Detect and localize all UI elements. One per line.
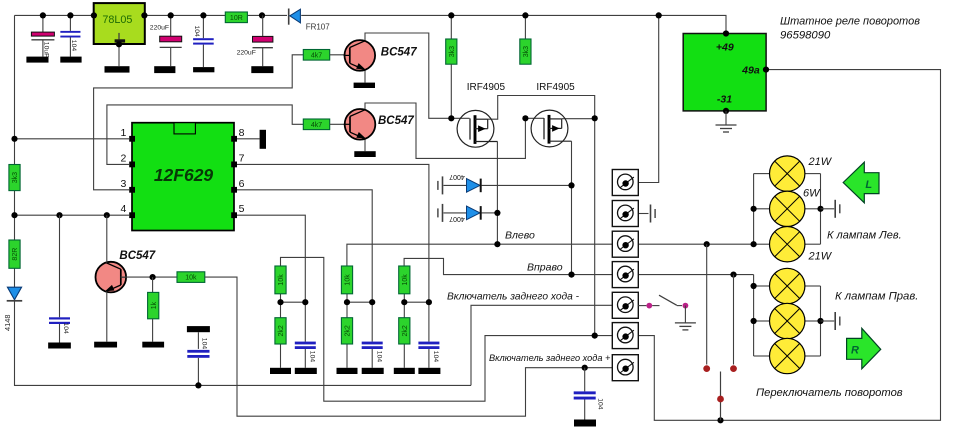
capacitor C6 104 (pin-4 row filter) [59, 215, 61, 317]
resistor R7 3k3 (gate pull-up of T2) [524, 15, 526, 39]
svg-text:Переключатель поворотов: Переключатель поворотов [756, 387, 903, 399]
wire: right switch contact drop [733, 275, 735, 365]
svg-text:К лампам Прав.: К лампам Прав. [835, 291, 918, 303]
wire: pin 6 to RC network 2 mid node [237, 190, 372, 302]
wire: pin 5 to RC network 1 mid node [237, 215, 305, 302]
resistor R4 4k7 (base of Q1) [303, 50, 329, 61]
svg-text:220uF: 220uF [150, 24, 169, 31]
wire: pin 7 to RC network 3 mid node [237, 164, 429, 302]
capacitor C2 104 (input ceramic) [69, 15, 71, 31]
junction: connector 3 wire / switch contact drop [704, 241, 710, 247]
wire: D4 cathode to T1 drain net [482, 212, 498, 214]
wire: R9 through down-right route to connector 7 (reverse +) [205, 277, 612, 416]
lamp L1 21W (left group) [770, 156, 805, 191]
junction: R6 / T1 gate [448, 115, 454, 121]
svg-text:82R: 82R [12, 248, 19, 261]
pin 8 pad of U1 (right, pin 8) [231, 136, 237, 142]
IC U1 12F629 [132, 123, 234, 231]
resistor 2k2 of RC network 3 [399, 318, 410, 344]
wire: left lamp bus (right side) [820, 174, 822, 245]
svg-text:12F629: 12F629 [154, 165, 214, 185]
svg-text:BC547: BC547 [378, 115, 414, 127]
transistor Q1 BC547 [345, 40, 376, 71]
ground bar of C4 [193, 67, 214, 72]
ground stub at left lamp group [834, 200, 836, 218]
resistor 2k2 of RC network 2 [341, 318, 352, 344]
earth ground at relay [716, 124, 737, 126]
svg-text:10k: 10k [185, 275, 197, 282]
junction: rail / R6 [448, 12, 454, 18]
transistor Q2 BC547 [345, 109, 376, 140]
svg-text:220uF: 220uF [237, 50, 256, 57]
svg-text:104: 104 [62, 323, 69, 335]
junction: T2 drain / Вправо row [568, 272, 574, 278]
wire: RC network 1 vertical leads [280, 294, 282, 318]
lamp L5 (right group) [770, 303, 805, 338]
svg-text:FR107: FR107 [306, 23, 331, 32]
svg-text:21W: 21W [808, 156, 833, 168]
svg-text:10k: 10k [402, 274, 409, 286]
svg-text:-31: -31 [717, 94, 732, 106]
junction: T1 drain / Влево row [494, 241, 500, 247]
ground bar of C1 [26, 57, 48, 63]
svg-text:2: 2 [121, 152, 127, 164]
junction: right lamp right bus tap [817, 318, 823, 324]
resistor 10k of RC network 1 [275, 266, 286, 294]
pin 3 pad of U1 [129, 187, 135, 193]
junction: relay 49a pin [763, 67, 769, 73]
capacitor C8 104 (reverse-plus filter) [584, 368, 586, 392]
junction: rail / C4 [200, 12, 206, 18]
svg-text:10k: 10k [278, 274, 285, 286]
wire: stub to D4 [444, 212, 467, 214]
resistor R1 10R (supply filter) [225, 12, 247, 23]
pin 1 pad of U1 [129, 136, 135, 142]
wire: connector-5 switch to earth [684, 306, 686, 323]
wire: connector 4 to right lamp group [638, 274, 753, 276]
junction: network 2 resistor node [344, 299, 350, 305]
wire: Q3 collector up to pin-4 row [106, 215, 108, 263]
ground stub at connector 2 [650, 205, 652, 223]
svg-text:7: 7 [239, 152, 245, 164]
pin 6 pad of U1 (right, pin 6) [231, 187, 237, 193]
capacitor C1 10uF (input electrolytic) [42, 15, 44, 32]
svg-text:IRF4905: IRF4905 [467, 82, 506, 93]
svg-text:Штатное реле поворотов: Штатное реле поворотов [780, 16, 920, 28]
svg-text:3k3: 3k3 [449, 46, 456, 57]
wire: left switch contact drop [706, 244, 708, 364]
connector J4 [612, 262, 638, 288]
junction: 78L05 ground pin [116, 41, 122, 47]
ground bar of 78L05 [105, 66, 130, 72]
capacitor 104 of RC network 1 [295, 342, 316, 345]
ground bar of Q2 emitter [354, 151, 375, 157]
svg-text:Вправо: Вправо [527, 261, 563, 273]
svg-text:К лампам Лев.: К лампам Лев. [827, 230, 902, 242]
svg-text:10uF: 10uF [43, 42, 50, 58]
capacitor C5 220uF (after 10R) [262, 15, 264, 36]
wire: pin 3 via left jog up to 4k7 R4 [94, 55, 304, 190]
wire: RC network 1 top via jog to connector-6 net [281, 257, 613, 401]
capacitor C3 220uF (output electrolytic) [170, 15, 172, 36]
junction: C7 / reverse-minus line [195, 382, 201, 388]
svg-text:4k7: 4k7 [311, 122, 322, 129]
svg-text:4007: 4007 [449, 215, 465, 222]
junction: rail / 78L05 output [141, 12, 147, 18]
svg-text:21W: 21W [808, 250, 833, 262]
ground bar of R8 [142, 342, 164, 348]
junction: network 3 cap node [426, 299, 432, 305]
svg-text:3k3: 3k3 [523, 46, 530, 57]
wire: connector 1 to +12V rail [638, 15, 658, 182]
arrow R (right turn) [847, 328, 881, 369]
capacitor C7 104 (reverse-minus line filter, ground on top) [187, 326, 210, 332]
lamp L3 21W (left group) [770, 227, 805, 262]
junction: relay +49 pin [723, 30, 729, 36]
wire: stub to D3 [444, 184, 467, 186]
svg-text:10k: 10k [345, 274, 352, 286]
capacitor C4 104 [202, 15, 204, 38]
wire: RC network 3 vertical leads [403, 294, 405, 318]
junction: network 1 cap node [302, 299, 308, 305]
svg-text:96598090: 96598090 [780, 30, 831, 42]
ground bar of C3 [154, 66, 175, 73]
ground bar of network 3 104 [418, 368, 440, 374]
ground bar at pin 8 (vertical) [260, 130, 266, 149]
junction: right lamp bus taps [751, 283, 757, 289]
pin 7 pad of U1 (right, pin 7) [231, 162, 237, 168]
lamp L6 (right group) [770, 338, 805, 373]
diode D2 4148 (pointing down, left column) [7, 287, 21, 300]
wire: connector 5 to left switch contact [638, 305, 646, 307]
svg-text:78L05: 78L05 [102, 14, 132, 26]
junction: network 1 resistor node [277, 299, 283, 305]
resistor R3 82R (left column) [9, 240, 20, 268]
wire: right lamp bus (left side) from connector-4 wire [753, 275, 755, 356]
wire: T1 drain down to Влево net [496, 142, 498, 245]
junction: connector-7 wire / C8 [582, 365, 588, 371]
svg-text:8: 8 [239, 127, 245, 139]
turn signal switch: right throw contact [730, 365, 737, 372]
svg-text:104: 104 [432, 351, 439, 363]
lamp L4 (right group) [770, 268, 805, 303]
ground stub at right lamp group [834, 312, 836, 330]
diode D3 4007 (to right-lamp net) [467, 179, 481, 193]
svg-text:104: 104 [375, 351, 382, 363]
wire: Q1 emitter to ground [364, 70, 366, 83]
svg-text:104: 104 [70, 40, 77, 52]
ground bar of C6 [48, 343, 71, 349]
lamp L2 6W (left group) [770, 191, 805, 226]
wire: stub right of left contact [652, 305, 659, 307]
turn signal switch: left throw contact [703, 365, 710, 372]
junction: common source line / T2 source [592, 115, 598, 121]
svg-text:2k2: 2k2 [402, 325, 409, 336]
junction: rail / connector 1 feed [656, 12, 662, 18]
svg-text:6W: 6W [803, 188, 821, 200]
capacitor 104 of RC network 2 [362, 342, 383, 345]
resistor 2k2 of RC network 1 [275, 318, 286, 344]
wire: Влево row from RC network 2 to connector 3 [347, 244, 612, 266]
resistor R2 3k3 (left column top) [9, 165, 20, 191]
svg-text:4: 4 [121, 203, 127, 215]
resistor R8 1k (Q3 base to ground) [152, 277, 154, 292]
resistor 10k of RC network 3 [399, 266, 410, 294]
wire: connector 6 to 49a return line [638, 70, 940, 421]
wire: T1 source bracket up to common source line and down to T2 source, then to connector 6 net [488, 96, 595, 336]
junction: Q3 base / R8 1k / R9 10k [150, 274, 156, 280]
svg-text:3k3: 3k3 [12, 172, 19, 183]
svg-text:49a: 49a [741, 65, 760, 77]
ground bar of C2 [60, 57, 81, 63]
junction: rail / C1 [40, 12, 46, 18]
ground bar of network 1 2k2 [270, 368, 291, 374]
junction: network 3 resistor node [401, 299, 407, 305]
ground bar of Q3 emitter [94, 342, 117, 348]
junction: connector 4 wire / switch contact drop [730, 272, 736, 278]
wire: stub into right contact [677, 305, 682, 307]
pin 2 pad of U1 [129, 162, 135, 168]
ground bar of network 2 2k2 [337, 368, 358, 374]
junction: network 2 cap node [369, 299, 375, 305]
resistor 10k of RC network 2 [341, 266, 352, 294]
junction: rail / C3 [168, 12, 174, 18]
wire: R4 to Q1 base [330, 54, 350, 56]
svg-text:10R: 10R [230, 15, 243, 22]
junction: R7 / T2 gate / Q2 collector [522, 115, 528, 121]
wire: D3 cathode to T2 drain net [482, 184, 572, 186]
svg-text:L: L [865, 179, 872, 191]
svg-text:4007: 4007 [449, 173, 465, 180]
junction: pin-4 row / filter cap 104 [56, 212, 62, 218]
junction: relay -31 pin [723, 108, 729, 114]
svg-text:Влево: Влево [505, 229, 535, 241]
junction: rail / C2 [67, 12, 73, 18]
svg-text:4148: 4148 [3, 315, 12, 331]
junction: left column / pin-1 row [11, 136, 17, 142]
wire: relay -31 to earth [725, 111, 727, 125]
turn signal switch: pole dot [717, 396, 724, 403]
resistor R6 3k3 (gate pull-up of T1) [450, 15, 452, 39]
wire: T2 source tap to common source line [562, 118, 595, 120]
junction: turn switch pole / 49a line [717, 417, 723, 423]
resistor R9 10k (Q3 base feed) [177, 272, 205, 283]
junction: rail / C5 [259, 12, 265, 18]
svg-text:Включатель заднего хода +: Включатель заднего хода + [489, 353, 611, 363]
ground bar of C8 [574, 420, 596, 427]
svg-text:3: 3 [121, 178, 127, 190]
junction: rail / R7 [522, 12, 528, 18]
diode D4 4007 (to left-lamp net) [467, 206, 481, 220]
wire: Q1 collector up and over to MOSFET T1 gate row [365, 33, 470, 118]
wire: +12V rail from FR107 to relay +49 terminal [301, 15, 726, 33]
switch contact dot (connector 5, right) [683, 303, 689, 309]
diode D1 FR107 (reverse protection, cathode left) [288, 9, 290, 25]
wire: net VDD row to pin 1 [15, 138, 130, 140]
ground bar of network 3 2k2 [394, 368, 415, 374]
ground bar of C5 [251, 66, 273, 73]
connector J6 [612, 323, 638, 349]
wire: Q2 collector over to MOSFET T2 gate net (with 3k3 pull-up) [365, 103, 525, 158]
capacitor 104 of RC network 3 [418, 342, 439, 345]
junction: left lamp right bus tap [817, 206, 823, 212]
junction: pin-4 row / Q3 collector [104, 212, 110, 218]
wire: Q2 emitter to ground [364, 139, 366, 152]
svg-text:1: 1 [121, 127, 127, 139]
resistor R5 4k7 (base of Q2) [303, 119, 329, 130]
connector J3 [612, 231, 638, 257]
svg-text:BC547: BC547 [381, 47, 417, 59]
wire: 78L05 ground lead [118, 44, 120, 66]
wire: left lamp ground stub [821, 208, 835, 210]
ground bar of network 2 104 [362, 368, 384, 374]
connector J2 [612, 201, 638, 227]
wire: +12V input rail (left segment, to FR107 cathode) [15, 14, 288, 16]
MOSFET T1 IRF4905 [457, 110, 494, 147]
svg-text:R: R [851, 344, 859, 356]
wire: R5 to Q2 base [330, 123, 351, 125]
wire: T2 gate stub [525, 117, 544, 119]
svg-text:BC547: BC547 [119, 250, 155, 262]
wire: left supply/sense column (through 3k3, 82R, 4148) down to bottom rail toward reverse switch minus [15, 15, 472, 385]
wire: Q3 base to 1k/10k node [121, 276, 177, 278]
ground bar of network 1 104 [295, 368, 317, 374]
junction: left lamp bus taps [751, 206, 757, 212]
wire: Q3 emitter to ground [106, 292, 108, 342]
svg-text:104: 104 [309, 351, 316, 363]
junction: left column / pin-4 row [11, 212, 17, 218]
svg-text:104: 104 [596, 398, 603, 410]
switch lever at connector 5 [659, 295, 677, 305]
junction: rail / 78L05 input [91, 12, 97, 18]
pin 4 pad of U1 [129, 212, 135, 218]
wire: reverse-minus line up to connector 5 [471, 305, 612, 385]
wire: connector 3 to left lamp group [638, 243, 753, 245]
svg-text:1k: 1k [151, 301, 158, 309]
pin 5 pad of U1 (right, pin 5) [231, 212, 237, 218]
terminal stub of D3 anode [442, 176, 444, 194]
voltage regulator U2 78L05 [94, 3, 145, 44]
junction: connector-6 net / common source line [592, 333, 598, 339]
arrow L (left turn) [843, 162, 879, 203]
turn signal switch: pole lever [720, 372, 722, 421]
ground bar of Q1 emitter [354, 83, 375, 88]
terminal stub of D4 anode [442, 204, 444, 222]
wire: pin 2 via left jog up to 4k7 R5 [107, 105, 303, 164]
relay K1 (Штатное реле поворотов) [683, 34, 766, 111]
wire: right lamp bus (right side) [820, 286, 822, 356]
svg-text:104: 104 [193, 26, 200, 38]
wire: Вправо row from RC network 3 to connector 4 [404, 258, 612, 274]
junction: D4 / T1 drain [494, 210, 500, 216]
svg-text:Включатель заднего хода -: Включатель заднего хода - [447, 292, 580, 303]
svg-text:4k7: 4k7 [311, 52, 322, 59]
connector J1 [612, 170, 638, 196]
wire: pin 4 row (GP3 net) [15, 214, 130, 216]
wire: connector 2 ground stub [638, 213, 648, 215]
svg-text:+49: +49 [716, 41, 734, 53]
svg-text:104: 104 [200, 338, 207, 350]
svg-text:IRF4905: IRF4905 [536, 82, 575, 93]
svg-text:2k2: 2k2 [278, 325, 285, 336]
MOSFET T2 IRF4905 [531, 110, 568, 147]
wire: RC network 2 vertical leads [346, 294, 348, 318]
wire: right lamp ground stub [821, 320, 835, 322]
connector J5 [612, 292, 638, 318]
svg-text:6: 6 [239, 178, 245, 190]
transistor Q3 BC547 (mirrored) [96, 262, 127, 293]
svg-text:2k2: 2k2 [345, 325, 352, 336]
earth ground at connector-5 switch [675, 322, 696, 324]
connector J7 [612, 355, 638, 381]
wire: left lamp bus (left side) [753, 174, 755, 245]
svg-text:5: 5 [239, 203, 245, 215]
switch contact dot (connector 5, left) [646, 303, 652, 309]
junction: D3 / T2 drain [568, 182, 574, 188]
wire: T2 drain down to Вправо net [571, 141, 573, 274]
wire: pin 8 to ground bar [237, 138, 260, 140]
